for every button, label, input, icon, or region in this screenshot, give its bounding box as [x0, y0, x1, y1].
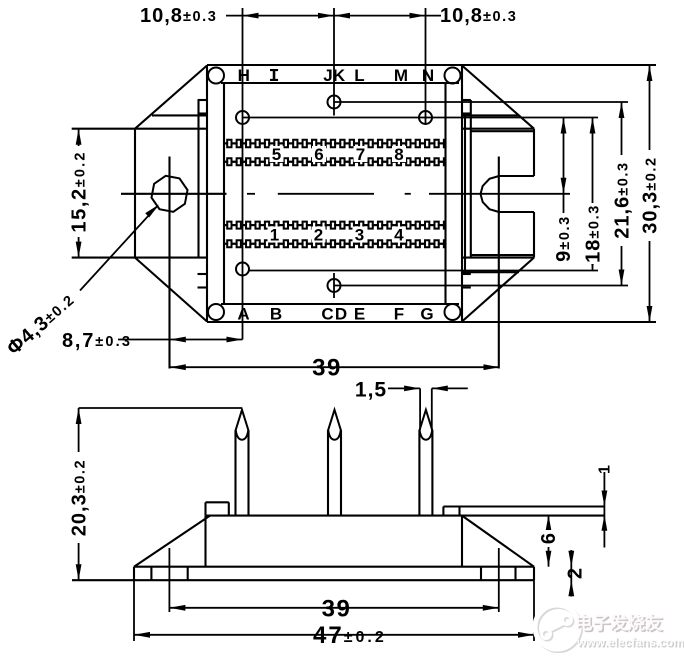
pin row extension line y=285.5 (21.6 dim) — [334, 285, 628, 287]
side view: right flange band top line — [443, 505, 604, 507]
left flange top step — [198, 99, 208, 101]
svg-text:4: 4 — [394, 226, 404, 245]
right slot opening edges — [499, 175, 534, 177]
pin hole N top — [419, 111, 432, 124]
svg-text:I: I — [269, 67, 280, 87]
dim 9 line with arrows — [563, 118, 565, 264]
pin 2 (middle) — [327, 430, 329, 516]
upper terminal strip bottom castellation — [224, 158, 446, 162]
top view: module body outline (39mm case) — [206, 65, 208, 322]
left flange inner edge line — [197, 100, 199, 258]
svg-text:7: 7 — [356, 145, 365, 164]
hex hole vertical centerline — [168, 157, 170, 369]
dim 30.3 text — [641, 150, 658, 241]
pin hole H/A column top — [236, 111, 249, 124]
side view: left hole centerline — [168, 548, 170, 612]
side view: right case edge — [461, 516, 463, 567]
svg-text:F: F — [394, 305, 404, 324]
leader line for phi 4.3 — [80, 206, 158, 291]
corner hole top-right — [445, 68, 461, 84]
upper terminal strip top castellation — [224, 140, 446, 144]
corner chamfer top-right — [462, 66, 534, 129]
side view: right chamfer — [462, 516, 534, 567]
right flange inner edge line — [470, 100, 472, 258]
pin 3 (right) — [418, 430, 420, 516]
svg-text:电子发烧友: 电子发烧友 — [575, 613, 663, 633]
dim 47 extension lines — [133, 580, 135, 641]
pin row extension line y=102 (21.6 dim) — [334, 101, 628, 103]
side view: case top line — [206, 515, 605, 517]
dim 20.3 text — [67, 452, 84, 543]
pin 1 (left) — [234, 430, 236, 516]
terminal number 8 — [392, 146, 406, 162]
svg-text:B: B — [270, 305, 282, 324]
side view: left case edge — [204, 516, 206, 567]
svg-text:20,3±0.2: 20,3±0.2 — [69, 459, 91, 536]
side view: left step box — [206, 501, 229, 503]
dim 20.3 line with arrows — [78, 408, 80, 580]
side view: baseplate — [134, 566, 534, 568]
svg-text:1: 1 — [597, 465, 614, 474]
dim 18 line with arrows — [592, 118, 594, 271]
terminal number 2 — [312, 227, 326, 243]
left flange bottom step — [198, 273, 208, 275]
svg-text:8,7±0.3: 8,7±0.3 — [62, 330, 132, 352]
hex mounting hole (phi 4.3) — [152, 176, 188, 212]
svg-text:8: 8 — [394, 145, 403, 164]
svg-text:3: 3 — [355, 226, 364, 245]
svg-text:39: 39 — [322, 596, 352, 623]
svg-text:30,3±0.2: 30,3±0.2 — [640, 156, 662, 233]
svg-text:2: 2 — [314, 226, 323, 245]
terminal number 6 — [312, 146, 326, 162]
lower terminal strip bottom castellation — [224, 240, 446, 244]
dim 47 line with arrows — [134, 634, 534, 636]
right flange hidden edge top — [462, 114, 519, 116]
pin row extension line y=270.5 (18 dim) — [250, 270, 599, 272]
left mounting flange outline — [134, 129, 136, 258]
svg-text:21,6±0.3: 21,6±0.3 — [612, 161, 634, 238]
svg-text:18±0.3: 18±0.3 — [583, 204, 605, 263]
dim 6 text — [540, 530, 556, 547]
pin row extension line y=117.5 (9/18 dim) — [243, 117, 599, 119]
svg-text:10,8±0.3: 10,8±0.3 — [440, 5, 517, 27]
dim 1 line with outside arrows — [603, 472, 605, 548]
dim 30.3 line with arrows — [649, 65, 651, 322]
svg-text:6: 6 — [538, 533, 560, 544]
terminal number 4 — [392, 227, 406, 243]
svg-text:A: A — [237, 305, 249, 324]
top view: inner band lines of case — [221, 82, 459, 84]
svg-text:C: C — [321, 305, 333, 324]
dim 39 top line with arrows — [170, 366, 500, 368]
side view: right hole centerline — [498, 548, 500, 612]
right slot rounded end — [481, 176, 500, 212]
svg-text:G: G — [420, 305, 433, 324]
horizontal centerline dashes — [247, 193, 255, 195]
svg-text:N: N — [422, 66, 434, 85]
dim 1.5 extension lines (pin edges) — [419, 388, 421, 430]
svg-text:1: 1 — [270, 226, 279, 245]
svg-text:E: E — [354, 305, 365, 324]
top view: top edge line extended right as 30.3 extension line — [207, 64, 656, 66]
svg-text:9±0.3: 9±0.3 — [553, 215, 575, 262]
dim 10.8 lines — [226, 15, 441, 17]
side view: right hole edges in baseplate — [480, 567, 482, 581]
right flange top step — [462, 99, 471, 101]
corner chamfer top-left — [135, 66, 207, 129]
watermark logo circle — [537, 607, 581, 651]
svg-text:2: 2 — [565, 568, 587, 579]
corner chamfer bottom-right — [462, 258, 534, 322]
dim 20.3 extension line top — [79, 407, 242, 409]
terminal number 3 — [353, 227, 367, 243]
terminal number 5 — [270, 146, 284, 162]
svg-text:www.elecfans.com: www.elecfans.com — [576, 635, 684, 649]
svg-text:H: H — [238, 66, 250, 85]
svg-text:5: 5 — [272, 145, 281, 164]
dim 1.5 leader and arrows — [388, 387, 420, 389]
dim 21.6 line with arrows — [621, 102, 623, 286]
dim 8.7 line with arrows — [118, 339, 243, 341]
svg-text:10,8±0.3: 10,8±0.3 — [140, 5, 217, 27]
dim extension vertical x=334 upper — [333, 8, 335, 116]
svg-text:15,2±0.2: 15,2±0.2 — [69, 150, 91, 232]
top view: bottom edge line extended right as 30.3 extension line — [207, 321, 656, 323]
side view: left chamfer — [134, 516, 210, 567]
corner hole top-left — [208, 68, 224, 84]
dim extension vertical x=242.5 — [242, 8, 244, 340]
dim 9 text — [555, 213, 572, 264]
dim 21.6 text — [613, 155, 630, 246]
dim 15.2 line with arrows — [78, 129, 80, 258]
svg-text:M: M — [394, 66, 408, 85]
corner hole bottom-left — [208, 304, 224, 320]
dim 39 bottom line with arrows — [169, 607, 498, 609]
terminal number 7 — [354, 146, 368, 162]
pin hole A column bottom — [236, 263, 249, 276]
svg-text:L: L — [354, 66, 364, 85]
dim extension vertical x=425.5 — [425, 8, 427, 125]
corner hole bottom-right — [445, 304, 461, 320]
dim 18 text — [584, 203, 601, 264]
svg-text:J: J — [323, 66, 332, 85]
hex hole horizontal centerline — [121, 193, 227, 195]
svg-text:1,5: 1,5 — [355, 379, 387, 402]
right flange bottom step — [462, 273, 471, 275]
dim 2 line with outside arrows — [570, 550, 572, 597]
svg-text:6: 6 — [314, 145, 323, 164]
right slot vertical centerline — [498, 157, 500, 369]
pin hole JKL top — [328, 96, 341, 109]
dim 6 line with arrows — [548, 515, 550, 567]
side view: right step box verticals — [442, 507, 444, 516]
right mounting flange outline — [462, 128, 534, 130]
svg-text:D: D — [335, 305, 347, 324]
right flange outline inner vertical — [464, 115, 466, 272]
dim extension vertical x=334 lower — [333, 273, 335, 298]
right flange hidden edge bottom — [462, 271, 519, 273]
corner chamfer bottom-left — [135, 258, 207, 322]
side view: left hole edges in baseplate — [150, 567, 152, 581]
left flange hidden edge top — [152, 114, 207, 116]
pin hole CDE bottom — [328, 279, 341, 292]
svg-text:39: 39 — [312, 355, 342, 382]
lower terminal strip top castellation — [224, 222, 446, 226]
dim 15.2 text — [67, 146, 84, 237]
terminal number 1 — [268, 227, 282, 243]
